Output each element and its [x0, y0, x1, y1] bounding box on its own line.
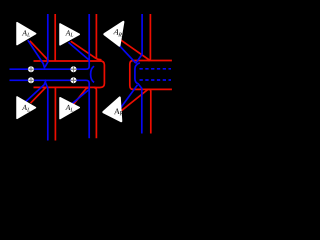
- wire blue vertical P1: [45, 14, 48, 67]
- wire red vertical P3: [148, 14, 150, 61]
- wire blue dashed lower: [140, 79, 172, 81]
- wire blue rail lower with corner down to P5: [10, 80, 90, 138]
- op-amp T6 A_R: [103, 98, 123, 122]
- wire red vertical P2 with corner: [96, 14, 101, 60]
- wire red output T2: [71, 41, 97, 58]
- wire blue rail upper with corner up to P2: [10, 14, 90, 69]
- wire blue output T6: [121, 85, 138, 108]
- wire red output T4: [31, 87, 46, 103]
- wire blue output T2: [69, 42, 89, 59]
- wire red output T6: [121, 89, 148, 111]
- op-amp T2 A_L: [60, 24, 79, 45]
- op-amp T3 A_R: [104, 22, 123, 46]
- wire red vertical P1: [54, 14, 56, 61]
- wire blue output T5: [69, 90, 89, 107]
- adder node 4: [71, 77, 77, 83]
- wire blue vertical P4: [45, 82, 48, 140]
- ear blue bracket head2 + P6 blue: [135, 63, 142, 134]
- wire red output T3: [121, 40, 151, 61]
- wire red vertical P6: [149, 89, 151, 133]
- op-amp T4 A_L: [17, 97, 36, 119]
- wire red vertical P5 with corner: [94, 88, 96, 138]
- adder node 1: [28, 66, 34, 72]
- wire red horizontal upper + head1 right side: [34, 61, 105, 88]
- wire blue vertical P3: [136, 14, 142, 63]
- wire blue output T3: [119, 46, 135, 64]
- op-amp T1 A_L: [17, 23, 36, 45]
- wire red horizontal lower-left: [34, 86, 96, 88]
- adder node 3: [28, 77, 34, 83]
- ear blue arc head1: [91, 66, 95, 82]
- wire red output T1: [30, 41, 49, 61]
- wire blue output T4: [25, 80, 46, 103]
- wire red output T5: [71, 88, 89, 108]
- op-amp T5 A_L: [60, 98, 79, 119]
- head2 red bracket with right horizontals: [130, 61, 172, 90]
- wire blue dashed upper: [140, 68, 172, 70]
- wire red vertical P4: [54, 87, 56, 140]
- wire blue output T1: [28, 40, 45, 68]
- adder node 2: [71, 66, 77, 72]
